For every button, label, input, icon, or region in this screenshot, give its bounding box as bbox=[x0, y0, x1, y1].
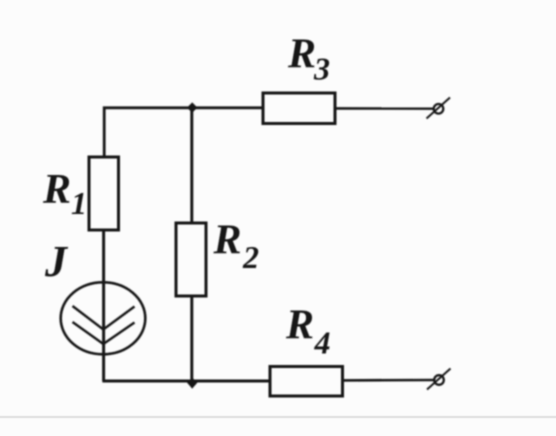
svg-text:1: 1 bbox=[71, 185, 87, 221]
resistor R4 bbox=[270, 367, 343, 397]
wire: R4 right lead to bottom terminal bbox=[342, 379, 435, 382]
svg-text:2: 2 bbox=[242, 239, 259, 275]
wire: bottom horizontal left (source to R4 left lead) bbox=[102, 380, 271, 383]
terminal: output bottom bbox=[427, 369, 451, 390]
wire: middle vertical lower (R2 to node B) bbox=[190, 296, 193, 381]
label R2 bbox=[213, 218, 260, 276]
wire: R3 right lead to top terminal bbox=[334, 107, 434, 110]
label R4 bbox=[285, 303, 331, 361]
label J bbox=[44, 237, 69, 286]
label R1 bbox=[42, 167, 87, 221]
resistor R3 bbox=[263, 93, 335, 124]
label R3 bbox=[287, 32, 330, 87]
wire: middle vertical upper (node A to R2) bbox=[190, 107, 193, 224]
wire: top horizontal, node A to R3 left lead bbox=[104, 108, 264, 158]
svg-text:R: R bbox=[285, 303, 314, 349]
svg-text:J: J bbox=[44, 237, 69, 286]
svg-text:R: R bbox=[287, 32, 316, 78]
terminal: output top bbox=[427, 98, 451, 119]
svg-text:R: R bbox=[42, 167, 71, 213]
svg-text:R: R bbox=[213, 218, 242, 264]
svg-text:3: 3 bbox=[313, 51, 330, 87]
resistor R1 bbox=[89, 157, 119, 230]
wire: R1 bottom through source J to bottom rail bbox=[102, 230, 105, 381]
resistor R2 bbox=[176, 223, 206, 296]
svg-text:4: 4 bbox=[314, 325, 331, 361]
node B: bottom junction dot bbox=[187, 378, 197, 389]
node A: top junction dot bbox=[187, 102, 197, 112]
current source J bbox=[61, 282, 146, 354]
